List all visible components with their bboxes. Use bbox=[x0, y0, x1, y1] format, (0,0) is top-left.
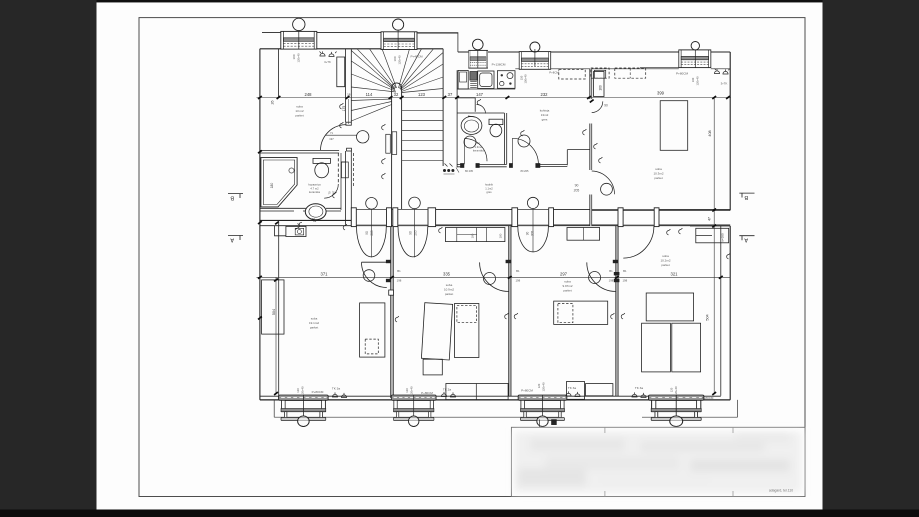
kitchen door jambs bbox=[510, 164, 513, 168]
svg-text:parket: parket bbox=[563, 289, 572, 293]
svg-text:160: 160 bbox=[599, 85, 603, 91]
svg-text:120+40: 120+40 bbox=[300, 386, 304, 396]
svg-text:120+40: 120+40 bbox=[297, 53, 301, 63]
svg-text:parket: parket bbox=[310, 326, 319, 330]
right vertical dim x714.2 bbox=[713, 98, 715, 394]
svg-text:120: 120 bbox=[405, 388, 409, 393]
title block ticks bbox=[605, 427, 733, 496]
svg-text:B: B bbox=[744, 194, 748, 200]
svg-text:100: 100 bbox=[691, 77, 695, 82]
svg-text:408: 408 bbox=[708, 130, 712, 136]
svg-text:205: 205 bbox=[531, 231, 535, 237]
drain dots left of WC bbox=[443, 169, 454, 172]
sheet inner border frame bbox=[139, 18, 805, 497]
svg-text:13 m2: 13 m2 bbox=[295, 109, 304, 113]
svg-text:parket: parket bbox=[445, 292, 454, 296]
svg-text:335: 335 bbox=[443, 272, 451, 277]
room2 bed2 bbox=[455, 304, 479, 358]
window W6 sash stem bbox=[397, 30, 399, 50]
radiator niche right bbox=[696, 228, 729, 243]
svg-text:205: 205 bbox=[370, 230, 374, 236]
stair handrail rects bbox=[386, 134, 391, 153]
WC door arc bbox=[465, 139, 488, 162]
window B3 shutter box bbox=[551, 419, 557, 425]
partition apt2/room3 bbox=[509, 226, 511, 396]
svg-text:37: 37 bbox=[448, 92, 453, 97]
svg-text:parket: parket bbox=[654, 176, 663, 180]
svg-text:B1: B1 bbox=[516, 269, 520, 273]
window B2 room2 bbox=[391, 395, 436, 427]
kitchen-dining door wall bbox=[540, 165, 568, 167]
window W7 stem bbox=[477, 50, 479, 68]
svg-text:197: 197 bbox=[329, 137, 334, 141]
WC toilet bbox=[489, 119, 503, 124]
svg-text:90: 90 bbox=[575, 184, 579, 188]
bathroom right wall dashed bbox=[337, 153, 339, 184]
stair landing circle bbox=[357, 131, 369, 143]
window W7 circle bbox=[473, 39, 484, 50]
svg-text:80 205: 80 205 bbox=[521, 169, 529, 173]
svg-text:10.2m2: 10.2m2 bbox=[660, 259, 670, 263]
hooks near hall bbox=[583, 129, 587, 135]
window B4 room4 bbox=[649, 395, 704, 427]
window B1 room1 bbox=[279, 395, 329, 427]
svg-text:120+40: 120+40 bbox=[696, 76, 700, 86]
corridor wall solid segments between doors bbox=[436, 209, 731, 225]
svg-text:114: 114 bbox=[366, 92, 373, 97]
washing machine niche bbox=[342, 162, 349, 178]
bathroom box walls bbox=[260, 150, 341, 211]
svg-text:504: 504 bbox=[272, 309, 276, 315]
svg-text:180: 180 bbox=[471, 233, 475, 238]
svg-text:180: 180 bbox=[499, 233, 503, 238]
svg-text:P+80CM: P+80CM bbox=[421, 391, 433, 395]
svg-text:soba: soba bbox=[296, 105, 303, 109]
window B3 room3 bbox=[518, 395, 567, 427]
svg-text:123: 123 bbox=[418, 92, 426, 97]
shaft rect right side of top-left room bbox=[337, 57, 345, 87]
room1 bed bbox=[360, 303, 385, 357]
svg-text:90: 90 bbox=[409, 231, 413, 235]
kitchen stove bbox=[497, 71, 515, 89]
svg-text:soba: soba bbox=[662, 254, 669, 258]
svg-text:321: 321 bbox=[671, 272, 679, 277]
svg-text:120: 120 bbox=[296, 388, 300, 393]
window W9 dining bbox=[679, 50, 711, 68]
corridor door1 opening lines bbox=[356, 209, 654, 225]
svg-text:s=180: s=180 bbox=[721, 233, 725, 242]
dining dashed cabinet 2 with solid insert bbox=[591, 68, 609, 78]
WC door circle bbox=[464, 136, 476, 148]
svg-text:120+40: 120+40 bbox=[674, 386, 678, 396]
svg-text:47: 47 bbox=[708, 217, 712, 221]
svg-text:180: 180 bbox=[270, 183, 274, 189]
WC room walls bbox=[457, 113, 507, 167]
svg-text:9.97m2: 9.97m2 bbox=[562, 284, 572, 288]
corridor door4 disc arc bbox=[623, 226, 654, 258]
svg-text:TK 2a: TK 2a bbox=[443, 388, 452, 392]
white drawing sheet bbox=[97, 2, 823, 509]
room2 side table bbox=[423, 359, 442, 375]
stair treads lower left diagonals bbox=[351, 99, 391, 121]
room jamb marks on partitions bbox=[386, 260, 619, 282]
room3 table dashed square bbox=[558, 304, 573, 323]
duct column right of wall x590 bbox=[594, 72, 605, 97]
door livingroom upper small arc bbox=[592, 101, 603, 112]
corridor door3 disc arc bbox=[518, 226, 549, 252]
corridor door2 disc arc bbox=[398, 226, 428, 257]
niche wall right of bathroom bbox=[341, 153, 346, 210]
kitchen sink drainer hatched bbox=[470, 72, 477, 81]
room1 entry arc bbox=[362, 262, 387, 287]
window W6 stairs bbox=[381, 32, 417, 50]
WC lobby box bbox=[457, 98, 475, 112]
left wall inner face (top room) bbox=[278, 49, 280, 98]
svg-text:hodnik: hodnik bbox=[485, 183, 494, 187]
svg-text:A: A bbox=[230, 237, 234, 243]
bathroom toilet bbox=[313, 158, 330, 163]
svg-text:P+80CM: P+80CM bbox=[702, 396, 714, 400]
room4 bed right bbox=[672, 323, 701, 372]
shower drain circle bbox=[289, 168, 294, 173]
window W6 circle bbox=[393, 19, 404, 30]
svg-text:A: A bbox=[744, 236, 748, 242]
window W8 kitchen2 bbox=[519, 52, 551, 70]
svg-text:soba: soba bbox=[446, 283, 453, 287]
bathroom sink oval bbox=[305, 204, 326, 220]
svg-text:19.1m2: 19.1m2 bbox=[309, 321, 319, 325]
room4 top bed bbox=[646, 293, 693, 321]
room2 bed2 pillow dashed bbox=[457, 305, 477, 322]
room1 bed pillow dashed bbox=[365, 339, 378, 354]
partition apt1/apt2 bbox=[391, 226, 394, 398]
window W5 sash stem bbox=[298, 31, 300, 50]
room3 entry arc bbox=[587, 262, 616, 291]
top-right room bottom wall bbox=[592, 209, 731, 210]
left wall inner face (lower rooms) bbox=[278, 223, 280, 400]
kitchen counter left block bbox=[458, 70, 468, 89]
svg-text:13m2: 13m2 bbox=[541, 113, 549, 117]
svg-text:parket: parket bbox=[295, 114, 304, 118]
svg-text:120: 120 bbox=[670, 387, 674, 392]
svg-text:B1: B1 bbox=[609, 269, 613, 273]
svg-text:P+80CM: P+80CM bbox=[521, 389, 533, 393]
top outer wall left section bbox=[260, 48, 443, 50]
svg-text:1.1m2: 1.1m2 bbox=[485, 186, 493, 190]
dark strip above sheet bbox=[97, 0, 823, 2]
room3 night stand bbox=[567, 382, 585, 400]
svg-text:120+40: 120+40 bbox=[397, 55, 401, 65]
wall between hall and dining/livingroom x590 bbox=[590, 69, 592, 226]
svg-text:P+80CM: P+80CM bbox=[312, 390, 324, 394]
svg-text:504: 504 bbox=[706, 314, 710, 320]
svg-text:371: 371 bbox=[321, 272, 329, 277]
room3 entry circle bbox=[589, 272, 601, 284]
corridor door jambs bbox=[351, 208, 659, 227]
stair hooks bbox=[382, 124, 386, 130]
svg-text:297: 297 bbox=[560, 272, 568, 277]
svg-text:adagard, tel.110: adagard, tel.110 bbox=[769, 489, 793, 493]
svg-text:100: 100 bbox=[292, 54, 296, 59]
stair newel U bbox=[392, 83, 402, 98]
svg-text:120+40: 120+40 bbox=[410, 386, 414, 396]
right outer wall bbox=[729, 52, 731, 400]
partition hinge hooks rooms bbox=[395, 316, 399, 322]
bottom outer wall (double) with window gaps bbox=[260, 395, 721, 397]
upper dimension chain y97.5 bbox=[257, 97, 732, 99]
svg-text:P+48CM: P+48CM bbox=[410, 55, 423, 59]
svg-text:TK 3a: TK 3a bbox=[332, 387, 341, 391]
svg-text:150+40: 150+40 bbox=[524, 74, 528, 84]
svg-text:TK 3a: TK 3a bbox=[568, 386, 577, 390]
landing dashed line bbox=[353, 153, 355, 186]
kitchen nook step wall bbox=[567, 150, 590, 166]
section marker B left bbox=[228, 194, 243, 201]
svg-text:P+80CM: P+80CM bbox=[676, 72, 689, 76]
left outer wall bbox=[259, 49, 261, 400]
svg-text:keramika: keramika bbox=[473, 149, 484, 153]
kitchen counter front edge bbox=[457, 88, 515, 90]
lintel line linking top windows bbox=[262, 32, 458, 35]
title block box (blurred content) bbox=[511, 427, 805, 496]
room2 bed1 (tilted) bbox=[421, 303, 452, 360]
corridor door1 disc arc bbox=[357, 226, 387, 256]
corridor wall upper line bbox=[351, 208, 591, 210]
svg-text:gres: gres bbox=[486, 190, 492, 194]
stair room left wall (double) bbox=[346, 49, 352, 226]
corridor wall lower line bbox=[260, 225, 730, 227]
vent glyphs top-right corner bbox=[714, 69, 729, 75]
kitchen sink basin bbox=[478, 71, 494, 89]
shower tray bbox=[261, 158, 297, 207]
window W5 top-left room bbox=[281, 31, 317, 49]
corridor door3 circle and stem bbox=[527, 197, 538, 208]
apt2 hall closet bbox=[446, 228, 505, 242]
WC lobby door arc bbox=[477, 105, 486, 114]
room3 table bbox=[554, 301, 608, 324]
stair spine walls bbox=[392, 98, 402, 210]
top outer wall kitchen/right section (outer face) bbox=[458, 51, 730, 53]
partition room3/apt4 bbox=[616, 226, 618, 396]
section marker B right bbox=[739, 193, 754, 200]
WC oval sink bbox=[461, 117, 482, 135]
terrace line under windows bbox=[274, 400, 737, 417]
svg-text:4.7 m2: 4.7 m2 bbox=[310, 186, 319, 190]
svg-text:gres: gres bbox=[542, 118, 548, 122]
svg-text:1.3m2: 1.3m2 bbox=[475, 145, 483, 149]
stair treads lower right bbox=[402, 110, 444, 160]
sofa top-right room bbox=[660, 101, 688, 151]
svg-text:90: 90 bbox=[526, 232, 530, 236]
door livingroom lower arc bbox=[592, 171, 615, 194]
svg-text:B1: B1 bbox=[397, 269, 401, 273]
svg-text:232: 232 bbox=[541, 92, 549, 97]
svg-text:soba: soba bbox=[311, 317, 318, 321]
door niche rect in stair west wall bbox=[346, 122, 351, 125]
svg-text:198: 198 bbox=[515, 279, 520, 283]
offset wall y226 right block bbox=[690, 225, 730, 227]
corridor door1 circle and stem bbox=[366, 198, 378, 210]
svg-text:80 205: 80 205 bbox=[465, 169, 473, 173]
svg-text:keramika: keramika bbox=[309, 190, 320, 194]
svg-text:205: 205 bbox=[574, 189, 580, 193]
kitchen door arc bbox=[512, 138, 538, 164]
svg-text:P+8CM: P+8CM bbox=[549, 71, 559, 75]
window W5 circle bbox=[293, 18, 305, 30]
window W7 kitchen bbox=[469, 50, 488, 68]
window W9 stem bbox=[694, 50, 696, 68]
room4 bed left bbox=[642, 323, 671, 372]
svg-text:198: 198 bbox=[397, 279, 402, 283]
svg-text:399: 399 bbox=[657, 91, 665, 96]
apt3 hall closet bbox=[567, 228, 600, 241]
kitchen west wall bbox=[456, 70, 458, 167]
apt2 hall hinge hook bbox=[439, 227, 443, 233]
svg-text:120: 120 bbox=[537, 383, 541, 388]
svg-text:198: 198 bbox=[622, 279, 627, 283]
svg-text:soba: soba bbox=[564, 280, 571, 284]
svg-text:197: 197 bbox=[332, 190, 336, 195]
svg-text:90: 90 bbox=[365, 231, 369, 235]
svg-text:10.9m2: 10.9m2 bbox=[444, 288, 454, 292]
svg-text:parket: parket bbox=[661, 263, 670, 267]
svg-text:150: 150 bbox=[520, 75, 524, 80]
svg-text:26: 26 bbox=[271, 101, 275, 105]
svg-text:32: 32 bbox=[394, 92, 399, 97]
svg-text:P+138CM: P+138CM bbox=[492, 63, 506, 67]
svg-text:198: 198 bbox=[609, 279, 614, 283]
bathroom door arc bbox=[324, 184, 338, 198]
svg-text:248: 248 bbox=[305, 92, 313, 97]
room1 wardrobe bbox=[262, 280, 284, 334]
svg-text:kupaonica: kupaonica bbox=[308, 183, 321, 187]
svg-text:soba: soba bbox=[655, 167, 662, 171]
corridor lower line second bbox=[351, 225, 659, 227]
svg-text:10.3m2: 10.3m2 bbox=[653, 172, 663, 176]
room2 bench bbox=[446, 384, 508, 400]
room2 entry arc bbox=[480, 262, 509, 291]
stair fan treads upper bbox=[351, 49, 443, 93]
kitchen door circle bbox=[518, 135, 530, 147]
svg-text:B1: B1 bbox=[623, 269, 627, 273]
section marker A right bbox=[739, 236, 754, 243]
TK glyphs at bottom windows bbox=[332, 391, 646, 397]
shaft ticks between stair and kitchen bbox=[445, 164, 453, 167]
svg-text:TK 3a: TK 3a bbox=[635, 386, 644, 390]
right wall inner face lower block bbox=[720, 226, 722, 396]
hooks at room1 kitchenette bbox=[296, 224, 300, 230]
apt1 hall walls bbox=[260, 219, 351, 221]
stair room right wall bbox=[442, 49, 444, 166]
svg-text:70: 70 bbox=[328, 191, 332, 194]
svg-text:147: 147 bbox=[476, 92, 484, 97]
dining dashed cabinet 3 bbox=[615, 68, 646, 78]
hooks at apt1 upper door bbox=[340, 103, 344, 109]
svg-text:120+40: 120+40 bbox=[542, 382, 546, 392]
kitchenette room1 bbox=[286, 226, 306, 236]
svg-text:18: 18 bbox=[347, 92, 351, 96]
window W8 circle bbox=[530, 42, 540, 52]
svg-text:90: 90 bbox=[604, 104, 608, 108]
svg-text:100: 100 bbox=[393, 56, 397, 61]
stair west small dim bbox=[348, 99, 350, 124]
WC door jambs bbox=[461, 164, 464, 168]
svg-text:3+TK: 3+TK bbox=[324, 60, 331, 64]
svg-text:71: 71 bbox=[330, 131, 333, 135]
top wall inner face right section bbox=[515, 68, 730, 69]
lower dimension chain y275.4 bbox=[257, 276, 731, 278]
overhang edge left section bbox=[262, 33, 458, 52]
svg-text:205: 205 bbox=[414, 230, 418, 236]
svg-text:kuhinja: kuhinja bbox=[540, 109, 550, 113]
room3 bench bbox=[586, 384, 613, 396]
door livingroom circle bbox=[601, 183, 613, 195]
section marker A left bbox=[228, 236, 243, 243]
window W9 circle bbox=[691, 42, 699, 50]
vent glyphs top-left room bbox=[320, 51, 337, 56]
svg-text:3+TK: 3+TK bbox=[721, 82, 728, 86]
black bar at bottom bbox=[0, 510, 919, 517]
dining dashed high cabinet 1 bbox=[559, 70, 585, 79]
room2 entry circle bbox=[484, 273, 496, 285]
svg-text:B: B bbox=[230, 195, 234, 201]
svg-text:175: 175 bbox=[342, 106, 346, 112]
room1 vertical dim x276 bbox=[275, 278, 277, 394]
partition gray fills bbox=[391, 226, 393, 398]
corridor door2 circle and stem bbox=[409, 197, 421, 209]
room1 entry circle bbox=[363, 270, 375, 282]
